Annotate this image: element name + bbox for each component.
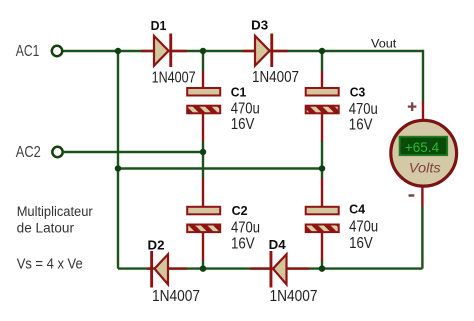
value 1N4007 (D2) — [152, 288, 200, 305]
voltmeter U1 body — [391, 101, 457, 207]
svg-text:1N4007: 1N4007 — [270, 288, 318, 305]
svg-text:D3: D3 — [251, 18, 268, 33]
svg-text:470u: 470u — [349, 101, 378, 118]
svg-text:C3: C3 — [350, 84, 366, 99]
junction node mid rail x=322 — [319, 165, 326, 172]
label C4 — [349, 202, 366, 217]
wire bottom rail — [118, 267, 422, 269]
wire voltmeter bottom to bottom rail — [421, 206, 423, 269]
voltmeter display — [400, 137, 448, 156]
terminal AC2 — [52, 147, 62, 157]
voltmeter Volts label — [409, 160, 441, 176]
voltmeter - pin label — [409, 194, 415, 196]
svg-text:D4: D4 — [269, 237, 287, 252]
diode D3 — [243, 34, 288, 68]
junction node top rail x=322 — [319, 48, 326, 55]
junction node top rail x=118 — [115, 48, 122, 55]
svg-text:+65.4: +65.4 — [405, 139, 439, 155]
value 470u (C3) — [349, 101, 378, 118]
schematic caption line 1 — [17, 204, 93, 219]
value 1N4007 (D1) — [152, 70, 196, 87]
svg-text:AC1: AC1 — [16, 43, 40, 60]
label C3 — [350, 84, 366, 99]
net label Vout — [371, 39, 397, 51]
svg-text:C1: C1 — [231, 85, 247, 100]
wire AC2 to node at x=203 — [64, 151, 203, 153]
svg-text:470u: 470u — [231, 101, 260, 118]
label AC2 — [16, 144, 41, 161]
schematic caption line 2 — [17, 220, 75, 235]
label D4 — [269, 237, 287, 252]
svg-text:16V: 16V — [349, 235, 373, 252]
junction node AC2/x=203 — [200, 149, 207, 156]
wire left vertical x=118 — [117, 51, 119, 269]
svg-text:C4: C4 — [349, 202, 366, 217]
label D2 — [148, 238, 165, 253]
svg-text:1N4007: 1N4007 — [152, 70, 196, 87]
label C1 — [231, 85, 247, 100]
junction node bottom rail x=322 — [319, 265, 326, 272]
wire top rail AC1 to Vout corner and down to voltmeter — [63, 51, 423, 101]
svg-text:1N4007: 1N4007 — [152, 288, 200, 305]
junction node mid rail x=118 — [115, 165, 122, 172]
value 1N4007 (D3) — [252, 69, 299, 86]
svg-text:16V: 16V — [349, 116, 373, 133]
svg-text:470u: 470u — [349, 219, 378, 236]
capacitor C2 — [187, 178, 220, 261]
wire vertical x=203 (C1/C2 net) — [202, 51, 204, 269]
svg-text:1N4007: 1N4007 — [252, 69, 299, 86]
junction node bottom rail x=203 — [200, 265, 207, 272]
wire mid rail y=168.5 from x=118 to x=322 — [118, 167, 322, 169]
junction node top rail x=203 — [200, 48, 207, 55]
svg-text:Vout: Vout — [371, 39, 397, 51]
svg-text:16V: 16V — [231, 116, 255, 133]
svg-text:de Latour: de Latour — [17, 220, 75, 235]
svg-text:Multiplicateur: Multiplicateur — [17, 204, 93, 219]
diode D1 — [141, 34, 187, 68]
value 470u (C2) — [231, 220, 260, 237]
svg-text:C2: C2 — [232, 203, 248, 218]
capacitor C3 — [306, 71, 339, 142]
label AC1 — [16, 43, 40, 60]
wire vertical x=322 (C3/C4 net) — [321, 51, 323, 269]
value 16V (C3) — [349, 116, 373, 133]
svg-text:16V: 16V — [231, 235, 255, 252]
svg-text:Volts: Volts — [409, 160, 441, 176]
label C2 — [232, 203, 248, 218]
value 1N4007 (D4) — [270, 288, 318, 305]
terminal AC1 — [52, 46, 62, 56]
svg-text:AC2: AC2 — [16, 144, 41, 161]
diode D2 — [147, 251, 187, 288]
label D3 — [251, 18, 268, 33]
value 470u (C4) — [349, 219, 378, 236]
value 16V (C4) — [349, 235, 373, 252]
svg-text:D2: D2 — [148, 238, 165, 253]
capacitor C1 — [187, 71, 220, 142]
capacitor C4 — [306, 178, 339, 261]
schematic formula Vs = 4 x Ve — [17, 255, 83, 272]
value 16V (C1) — [231, 116, 255, 133]
svg-text:470u: 470u — [231, 220, 260, 237]
value 470u (C1) — [231, 101, 260, 118]
diode D4 — [250, 251, 310, 288]
svg-text:D1: D1 — [151, 18, 167, 33]
svg-text:Vs = 4 x Ve: Vs = 4 x Ve — [17, 255, 83, 272]
voltmeter + pin label — [408, 102, 417, 111]
value 16V (C2) — [231, 235, 255, 252]
label D1 — [151, 18, 167, 33]
